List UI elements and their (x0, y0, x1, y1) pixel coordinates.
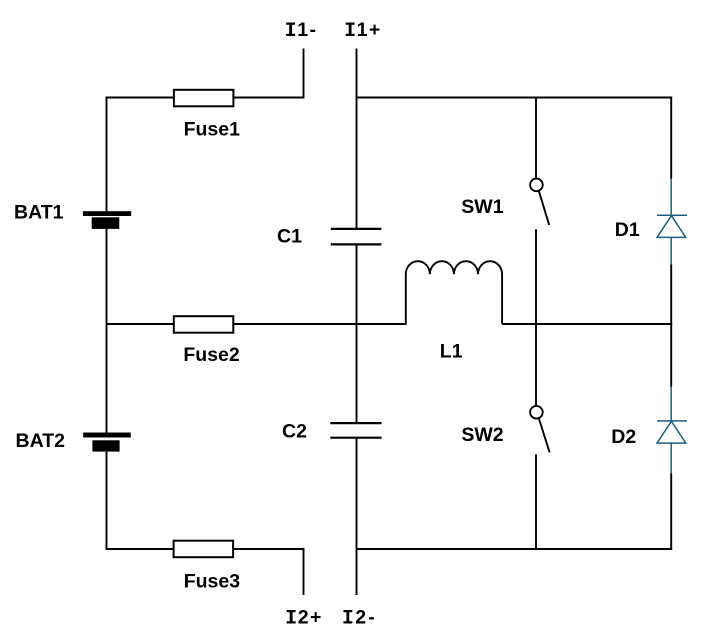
wire: center column, C1 down through middle bus to C2 (356, 244, 358, 423)
svg-text:1+: 1+ (357, 19, 382, 41)
svg-text:I: I (285, 608, 297, 631)
wire: left column, BAT1 down through middle bus to BAT2 (106, 229, 108, 433)
svg-text:Fuse2: Fuse2 (183, 344, 240, 366)
wire: switch column, SW1 down through middle bus to SW2 (535, 229, 537, 406)
wire: center column, C2 down to terminal I2- (356, 438, 358, 595)
switch SW1 (530, 179, 549, 225)
svg-text:SW2: SW2 (461, 424, 503, 446)
wire: fuse1 row, left column to Fuse1 (106, 97, 175, 99)
wire: right column, D2 down to bottom bus (670, 473, 672, 549)
terminal I2+ label (285, 607, 323, 631)
battery BAT2 (83, 433, 131, 452)
terminal I1+ label (344, 19, 382, 43)
svg-text:Fuse1: Fuse1 (184, 119, 241, 141)
wire: right column, D1 down through middle bus to D2 (670, 264, 672, 386)
svg-text:L1: L1 (440, 341, 463, 363)
capacitor C2 (330, 423, 381, 438)
wire: middle bus, L1 right leg to right column (502, 323, 672, 325)
diode D1 (657, 179, 687, 264)
diode D2 (657, 387, 687, 474)
svg-text:BAT2: BAT2 (16, 430, 66, 452)
wire: top bus, I1+ column to right column (357, 97, 673, 99)
svg-text:C2: C2 (282, 421, 307, 443)
fuse Fuse1 (174, 90, 234, 107)
terminal I1- label (285, 19, 318, 43)
wire: right column, top bus down to D1 (670, 97, 672, 179)
battery BAT1 (83, 211, 131, 229)
svg-text:I: I (342, 608, 354, 631)
fuse Fuse2 (174, 316, 234, 333)
wire: middle bus, left column to Fuse2 (107, 323, 175, 325)
wire: bottom bus, center column to right column (357, 548, 673, 550)
svg-text:D1: D1 (615, 219, 640, 241)
wire: middle bus, Fuse2 to inductor L1 left leg (234, 323, 407, 325)
wire: Fuse1 to terminal I1- corner stub (234, 49, 304, 98)
fuse Fuse3 (174, 541, 234, 558)
svg-text:SW1: SW1 (461, 196, 503, 218)
wire: left column, BAT2 down to fuse3 row (106, 452, 108, 549)
svg-text:2+: 2+ (298, 607, 323, 629)
capacitor C1 (331, 229, 382, 245)
terminal I2- label (342, 607, 377, 631)
svg-text:1-: 1- (297, 19, 317, 41)
svg-text:C1: C1 (277, 226, 302, 248)
svg-text:D2: D2 (611, 426, 636, 448)
wire: fuse3 row, left column to Fuse3 (106, 548, 175, 550)
wire: switch column, top bus down to SW1 (535, 98, 537, 179)
svg-text:I: I (285, 20, 297, 43)
svg-text:Fuse3: Fuse3 (184, 571, 241, 593)
wire: Fuse3 to terminal I2+ corner stub (234, 549, 304, 595)
wire: left column, fuse1 row down to BAT1 (106, 98, 108, 213)
switch SW2 (530, 406, 549, 452)
svg-text:BAT1: BAT1 (14, 201, 64, 223)
svg-text:2-: 2- (355, 607, 377, 629)
inductor L1 (406, 261, 502, 324)
wire: center column, terminal I1+ down to C1 (356, 49, 358, 230)
wire: switch column, SW2 down to bottom bus (535, 454, 537, 549)
svg-text:I: I (344, 20, 356, 43)
